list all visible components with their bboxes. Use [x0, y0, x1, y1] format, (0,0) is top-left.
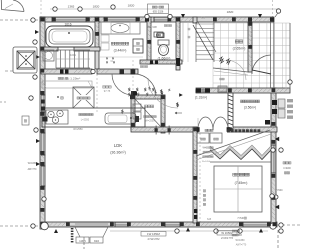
svg-text:SIC: SIC: [201, 17, 205, 20]
svg-text:AW=770: AW=770: [28, 168, 38, 171]
svg-text:1365: 1365: [79, 239, 86, 243]
svg-text:(: (: [64, 77, 65, 81]
svg-text:W=1650: W=1650: [28, 163, 37, 165]
svg-text:7=540: 7=540: [237, 216, 244, 220]
svg-text:655·2326: 655·2326: [153, 11, 164, 14]
svg-text:(2.65m²): (2.65m²): [233, 47, 246, 51]
svg-text:W=2550: W=2550: [73, 128, 83, 131]
svg-text:910: 910: [94, 239, 99, 243]
svg-text:2=W1776: 2=W1776: [221, 236, 233, 240]
svg-text:1820: 1820: [93, 5, 100, 9]
svg-text:AW7=770: AW7=770: [236, 244, 247, 247]
svg-text:(3.44m²): (3.44m²): [114, 49, 127, 53]
svg-text:W=2550: W=2550: [145, 120, 155, 123]
svg-text:1F11: 1F11: [70, 53, 76, 57]
svg-text:(36.36m²): (36.36m²): [110, 151, 126, 155]
svg-text:BOX: BOX: [238, 234, 242, 237]
svg-text:):1.20m²: ):1.20m²: [68, 77, 80, 81]
svg-text:1W 1650Z: 1W 1650Z: [147, 232, 160, 236]
svg-text:LDK: LDK: [114, 143, 122, 148]
svg-text:W=1650: W=1650: [202, 161, 211, 163]
svg-text:7=540: 7=540: [275, 189, 283, 192]
svg-text:1820: 1820: [128, 4, 135, 8]
svg-text:SxB: SxB: [207, 219, 212, 221]
svg-text:1616: 1616: [64, 23, 71, 27]
svg-text:W=1650: W=1650: [236, 239, 246, 242]
svg-text:W=600: W=600: [203, 147, 210, 150]
svg-text:(1.66m²): (1.66m²): [158, 57, 171, 61]
svg-text:BOX: BOX: [209, 151, 213, 154]
svg-text:1365: 1365: [68, 5, 75, 9]
svg-text:L=2550: L=2550: [81, 119, 90, 122]
svg-text:1820: 1820: [227, 10, 234, 14]
svg-text:W 1650Z: W 1650Z: [221, 231, 233, 235]
svg-text:(7.45m²): (7.45m²): [235, 181, 248, 185]
svg-text:358·908: 358·908: [147, 25, 157, 29]
svg-text:(3.56m²): (3.56m²): [244, 106, 256, 110]
svg-text:(1.31m²): (1.31m²): [195, 96, 207, 100]
svg-text:2=W1782: 2=W1782: [147, 237, 159, 241]
svg-text:t=100: t=100: [283, 166, 291, 170]
svg-text:97.75: 97.75: [104, 89, 111, 93]
